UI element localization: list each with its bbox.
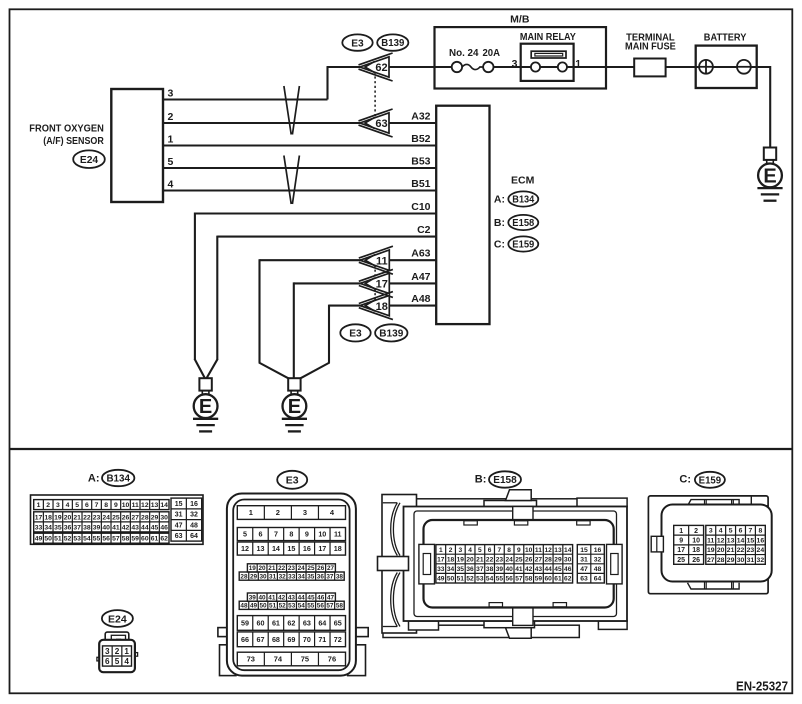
svg-text:31: 31 [747,557,755,564]
svg-text:35: 35 [54,524,62,531]
svg-text:62: 62 [287,619,295,628]
svg-text:21: 21 [73,514,81,521]
svg-text:B53: B53 [411,156,430,168]
oval label B139 (mid) [375,324,407,341]
connector view E3 housing [218,628,233,637]
svg-text:50: 50 [447,576,455,583]
ground E (C10/C2) [199,378,211,390]
svg-text:1: 1 [575,58,581,70]
svg-text:3: 3 [303,508,307,517]
svg-text:70: 70 [303,635,311,644]
svg-text:MAIN RELAY: MAIN RELAY [520,32,576,43]
svg-text:20: 20 [466,556,474,563]
section divider [10,448,793,450]
svg-text:42: 42 [278,594,286,601]
E158 side latches [419,544,435,584]
svg-text:13: 13 [151,502,159,509]
svg-text:9: 9 [114,502,118,509]
svg-text:18: 18 [44,514,52,521]
svg-text:28: 28 [240,573,248,580]
svg-text:46: 46 [564,566,572,573]
connector arrow 18 [359,292,393,304]
svg-text:19: 19 [54,514,62,521]
ground E (battery) [764,148,776,160]
svg-text:10: 10 [318,530,326,539]
svg-text:7: 7 [749,528,753,535]
svg-text:12: 12 [141,502,149,509]
svg-text:58: 58 [336,603,344,610]
svg-text:5: 5 [75,502,79,509]
svg-text:23: 23 [93,514,101,521]
svg-text:9: 9 [517,547,521,554]
svg-text:8: 8 [104,502,108,509]
svg-text:57: 57 [326,603,334,610]
svg-text:A:: A: [88,473,100,485]
svg-text:64: 64 [594,576,602,583]
svg-text:31: 31 [269,573,277,580]
svg-text:15: 15 [287,544,295,553]
svg-text:20A: 20A [483,48,501,59]
svg-text:4: 4 [124,657,129,666]
svg-text:13: 13 [727,537,735,544]
svg-text:46: 46 [317,594,325,601]
svg-text:46: 46 [160,524,168,531]
svg-text:29: 29 [151,514,159,521]
svg-text:27: 27 [707,557,715,564]
svg-text:15: 15 [580,547,588,554]
svg-text:14: 14 [564,547,572,554]
svg-text:53: 53 [73,536,81,543]
svg-text:26: 26 [525,556,533,563]
svg-text:B134: B134 [106,474,130,485]
svg-text:11: 11 [132,502,139,509]
svg-text:42: 42 [525,566,533,573]
svg-text:2: 2 [115,647,120,656]
dotted connector link 62-63 [374,67,376,123]
svg-text:58: 58 [122,536,130,543]
svg-text:4: 4 [468,547,472,554]
svg-text:13: 13 [256,544,264,553]
svg-text:B139: B139 [379,328,404,339]
svg-text:54: 54 [298,603,306,610]
battery + terminal [699,60,713,74]
svg-text:32: 32 [594,556,602,563]
svg-text:33: 33 [437,566,445,573]
svg-text:34: 34 [44,524,52,531]
wire riser pin3 up to relay feed [326,67,328,100]
svg-text:BATTERY: BATTERY [704,32,747,43]
svg-text:45: 45 [151,524,159,531]
svg-text:11: 11 [334,530,342,539]
svg-text:23: 23 [747,547,755,554]
svg-text:26: 26 [122,514,130,521]
svg-text:43: 43 [535,566,543,573]
svg-text:A48: A48 [411,293,430,305]
svg-text:41: 41 [268,594,276,601]
svg-text:24: 24 [102,514,110,521]
svg-text:64: 64 [318,619,326,628]
wire battery to ground [769,66,771,148]
svg-text:B:: B: [475,473,487,485]
svg-text:47: 47 [175,523,183,530]
svg-text:12: 12 [545,547,553,554]
svg-text:3: 3 [56,502,60,509]
svg-text:6: 6 [105,657,110,666]
svg-text:E3: E3 [349,329,362,340]
E158 pin grid [436,545,573,583]
wire pin5 to ECM B53 [163,167,436,169]
ground E (A63/A47/A48) [288,378,300,390]
svg-text:39: 39 [249,594,257,601]
svg-text:48: 48 [594,566,602,573]
svg-text:18: 18 [376,301,388,313]
svg-text:6: 6 [85,502,89,509]
svg-text:35: 35 [307,573,315,580]
svg-text:A47: A47 [411,271,430,283]
svg-text:2: 2 [276,508,280,517]
svg-text:58: 58 [525,576,533,583]
svg-text:7: 7 [498,547,502,554]
svg-text:30: 30 [737,557,745,564]
svg-text:71: 71 [318,635,326,644]
svg-text:57: 57 [112,536,120,543]
svg-text:33: 33 [35,524,43,531]
connector arrow 62 [359,53,393,65]
svg-text:32: 32 [757,557,765,564]
svg-text:18: 18 [447,556,455,563]
svg-text:26: 26 [317,565,325,572]
svg-text:16: 16 [190,501,198,508]
ECM box [436,106,489,324]
svg-text:1: 1 [124,647,129,656]
svg-text:27: 27 [535,556,543,563]
svg-text:53: 53 [288,603,296,610]
svg-text:12: 12 [241,544,249,553]
connector arrow 11 [359,246,393,258]
svg-text:12: 12 [717,537,725,544]
svg-text:63: 63 [303,619,311,628]
wire A63 to ground [260,259,437,261]
svg-text:36: 36 [317,573,325,580]
oval label E3 (mid) [340,324,370,341]
svg-text:15: 15 [747,537,755,544]
svg-text:30: 30 [160,514,168,521]
svg-text:62: 62 [564,576,572,583]
svg-text:2: 2 [46,502,50,509]
svg-text:48: 48 [190,523,198,530]
svg-text:60: 60 [141,536,149,543]
dotted connector link 11-17-18 [374,260,376,306]
svg-text:24: 24 [757,547,765,554]
svg-text:17: 17 [35,514,43,521]
svg-text:A63: A63 [411,248,430,260]
svg-text:10: 10 [122,502,130,509]
svg-text:73: 73 [247,655,255,664]
wire C10 to ground [195,212,436,214]
svg-text:A:: A: [494,194,505,206]
svg-text:37: 37 [73,524,81,531]
svg-text:6: 6 [488,547,492,554]
oval label E3 (top) [342,34,372,50]
svg-text:35: 35 [457,566,465,573]
svg-text:24: 24 [298,565,306,572]
svg-text:E: E [763,166,776,188]
svg-text:E3: E3 [351,38,364,49]
svg-text:60: 60 [545,576,553,583]
svg-text:1: 1 [439,547,443,554]
svg-text:40: 40 [102,524,110,531]
E3 pin grid [237,506,345,520]
svg-text:75: 75 [301,655,309,664]
svg-text:B139: B139 [381,38,405,49]
svg-text:8: 8 [507,547,511,554]
svg-text:44: 44 [545,566,553,573]
svg-text:31: 31 [175,512,183,519]
svg-text:34: 34 [298,573,306,580]
svg-text:11: 11 [707,537,714,544]
svg-text:5: 5 [729,528,733,535]
svg-text:16: 16 [594,547,602,554]
svg-text:53: 53 [476,576,484,583]
svg-text:48: 48 [240,603,248,610]
relay coil bar [531,51,566,58]
svg-text:39: 39 [93,524,101,531]
svg-text:38: 38 [486,566,494,573]
svg-text:E159: E159 [699,475,722,486]
svg-text:2: 2 [694,528,698,535]
svg-text:30: 30 [260,573,268,580]
connector arrow 17 [359,269,393,281]
main power wire y=67 riser to battery [327,66,771,68]
svg-text:40: 40 [505,566,513,573]
svg-text:17: 17 [376,279,388,291]
svg-text:19: 19 [707,547,715,554]
svg-text:1: 1 [679,528,683,535]
svg-text:22: 22 [737,547,745,554]
svg-text:49: 49 [250,603,258,610]
svg-text:5: 5 [115,657,120,666]
svg-text:54: 54 [83,536,91,543]
svg-text:B134: B134 [512,195,534,206]
svg-text:32: 32 [279,573,287,580]
connector view E24 [105,632,129,641]
svg-text:25: 25 [112,514,120,521]
svg-text:63: 63 [175,533,183,540]
svg-text:B51: B51 [411,178,430,190]
svg-text:38: 38 [83,524,91,531]
svg-text:69: 69 [287,635,295,644]
svg-text:3: 3 [105,647,110,656]
svg-text:FRONT OXYGEN: FRONT OXYGEN [29,122,104,134]
svg-text:44: 44 [141,524,149,531]
svg-text:55: 55 [496,576,504,583]
svg-text:E159: E159 [512,240,534,251]
label E3 (bottom) [277,471,307,489]
svg-text:51: 51 [269,603,277,610]
svg-text:62: 62 [375,62,387,74]
svg-text:36: 36 [64,524,72,531]
harness break V on wires 5,4 [284,156,300,205]
svg-text:1: 1 [249,508,253,517]
svg-text:25: 25 [677,557,685,564]
svg-text:44: 44 [298,594,306,601]
svg-text:42: 42 [122,524,130,531]
svg-text:29: 29 [727,557,735,564]
svg-text:4: 4 [719,528,723,535]
svg-text:20: 20 [259,565,267,572]
svg-text:C2: C2 [417,224,431,236]
svg-text:2: 2 [449,547,453,554]
svg-text:36: 36 [466,566,474,573]
svg-text:29: 29 [554,556,562,563]
svg-text:11: 11 [535,547,542,554]
svg-text:B:: B: [494,217,505,229]
svg-text:E158: E158 [512,218,534,229]
svg-text:ECM: ECM [511,175,535,187]
sensor pin numbers [168,87,174,190]
svg-text:4: 4 [66,502,70,509]
svg-text:1: 1 [37,502,41,509]
svg-text:49: 49 [437,576,445,583]
wire pin4 to ECM B51 [163,189,436,191]
svg-text:5: 5 [243,530,247,539]
svg-text:45: 45 [307,594,315,601]
svg-text:M/B: M/B [510,14,530,26]
svg-text:11: 11 [376,255,388,267]
svg-text:30: 30 [564,556,572,563]
svg-text:14: 14 [272,544,280,553]
svg-text:65: 65 [334,619,342,628]
svg-text:40: 40 [259,594,267,601]
svg-text:37: 37 [326,573,334,580]
svg-text:14: 14 [160,502,168,509]
svg-text:EN-25327: EN-25327 [736,679,788,693]
svg-text:21: 21 [268,565,276,572]
svg-text:22: 22 [486,556,494,563]
svg-text:3: 3 [709,528,713,535]
svg-text:52: 52 [466,576,474,583]
M/B fuse box [435,27,607,88]
svg-text:24: 24 [505,556,513,563]
E159 pin grid [674,525,704,564]
svg-text:61: 61 [554,576,562,583]
svg-text:60: 60 [256,619,264,628]
svg-text:15: 15 [175,501,183,508]
battery - terminal [737,60,751,74]
svg-text:19: 19 [457,556,465,563]
svg-text:18: 18 [692,547,700,554]
svg-text:8: 8 [758,528,762,535]
svg-text:17: 17 [318,544,326,553]
svg-text:A32: A32 [411,111,430,123]
svg-text:41: 41 [515,566,523,573]
svg-text:3: 3 [512,58,518,70]
svg-text:41: 41 [112,524,120,531]
svg-text:38: 38 [336,573,344,580]
svg-text:54: 54 [486,576,494,583]
svg-text:6: 6 [258,530,262,539]
svg-text:MAIN FUSE: MAIN FUSE [625,41,676,52]
svg-text:28: 28 [545,556,553,563]
wire pin2 to ECM A32 [163,122,436,124]
svg-text:C:: C: [494,239,505,251]
svg-text:43: 43 [131,524,139,531]
connector view B134 [31,495,204,544]
svg-text:25: 25 [307,565,315,572]
svg-text:22: 22 [83,514,91,521]
svg-text:17: 17 [677,547,685,554]
svg-text:21: 21 [727,547,735,554]
svg-text:19: 19 [249,565,257,572]
svg-text:E24: E24 [80,155,99,166]
connector arrow 63 [359,109,393,121]
svg-text:16: 16 [757,537,765,544]
svg-text:4: 4 [168,178,174,190]
MAIN RELAY box [521,44,574,81]
svg-text:62: 62 [160,536,168,543]
svg-text:7: 7 [274,530,278,539]
wire pin3 sensor to riser [163,98,328,100]
oval label E24 [73,150,105,168]
svg-text:27: 27 [327,565,335,572]
svg-text:56: 56 [317,603,325,610]
svg-text:9: 9 [305,530,309,539]
svg-text:28: 28 [141,514,149,521]
relay contacts [531,62,540,71]
svg-text:No. 24: No. 24 [449,48,479,59]
svg-text:E158: E158 [493,475,517,486]
svg-text:39: 39 [496,566,504,573]
svg-text:37: 37 [476,566,484,573]
svg-text:26: 26 [692,557,700,564]
svg-text:C:: C: [679,474,691,486]
svg-text:5: 5 [478,547,482,554]
oval label B139 (top) [377,34,408,50]
svg-text:6: 6 [739,528,743,535]
svg-text:E: E [199,396,212,418]
svg-text:59: 59 [241,619,249,628]
svg-text:10: 10 [692,538,700,545]
svg-text:20: 20 [64,514,72,521]
svg-text:33: 33 [288,573,296,580]
svg-text:5: 5 [168,156,174,168]
svg-text:B52: B52 [411,133,430,145]
svg-text:27: 27 [131,514,139,521]
svg-text:55: 55 [307,603,315,610]
svg-text:72: 72 [334,635,342,644]
svg-text:52: 52 [279,603,287,610]
svg-text:45: 45 [554,566,562,573]
svg-text:56: 56 [102,536,110,543]
svg-text:E3: E3 [286,475,299,487]
svg-text:20: 20 [717,547,725,554]
svg-text:29: 29 [250,573,258,580]
svg-text:66: 66 [241,635,249,644]
ECM pin labels [411,111,430,306]
wire A48 to ground [329,305,436,307]
svg-text:52: 52 [64,536,72,543]
svg-text:22: 22 [278,565,286,572]
svg-text:23: 23 [288,565,296,572]
svg-text:67: 67 [256,635,264,644]
connector view E158 housing [383,625,579,637]
svg-text:59: 59 [131,536,139,543]
svg-text:34: 34 [447,566,455,573]
svg-text:23: 23 [496,556,504,563]
svg-text:51: 51 [54,536,62,543]
svg-text:55: 55 [93,536,101,543]
wire pin1 to ECM B52 [163,144,436,146]
